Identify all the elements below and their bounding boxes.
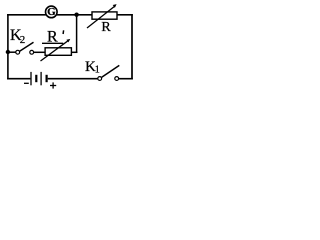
svg-text:2: 2 [20, 34, 26, 46]
wire: top, node A to rheostat R [77, 14, 93, 16]
label K1 [85, 59, 100, 75]
wire: K2 to rheostat R' [34, 51, 46, 53]
label R' with underline [42, 29, 64, 46]
node A junction dot [74, 13, 78, 17]
wire: node B to switch K2 [8, 51, 16, 53]
galvanometer U1 circle [46, 6, 58, 18]
svg-text:1: 1 [95, 65, 100, 76]
wire: right vertical [131, 14, 133, 80]
battery minus label [24, 82, 29, 84]
node B junction dot on left wire [6, 50, 10, 54]
wire: top, galvanometer to node A [56, 14, 77, 16]
battery GB1 [31, 72, 47, 85]
rheostat R' body [45, 48, 71, 56]
switch K1 [98, 65, 120, 80]
wire: battery to switch K1 [48, 78, 98, 80]
rheostat R arrow [87, 4, 117, 28]
svg-text:R: R [101, 20, 111, 35]
wire: top, R to right corner [117, 14, 133, 16]
wire: K1 to bottom right corner [119, 78, 133, 80]
rheostat R' arrow [41, 39, 71, 61]
label K2 [10, 27, 25, 46]
wire: left vertical [7, 14, 9, 80]
battery plus label [50, 82, 56, 88]
wire: top, left of galvanometer [7, 14, 46, 16]
wire: R' to riser [71, 51, 77, 53]
wire: riser from R' branch up to node A [76, 15, 78, 53]
rheostat R body [92, 12, 117, 19]
switch K2 [16, 42, 34, 54]
wire: bottom, left corner to battery [7, 78, 30, 80]
svg-text:G: G [47, 6, 56, 18]
